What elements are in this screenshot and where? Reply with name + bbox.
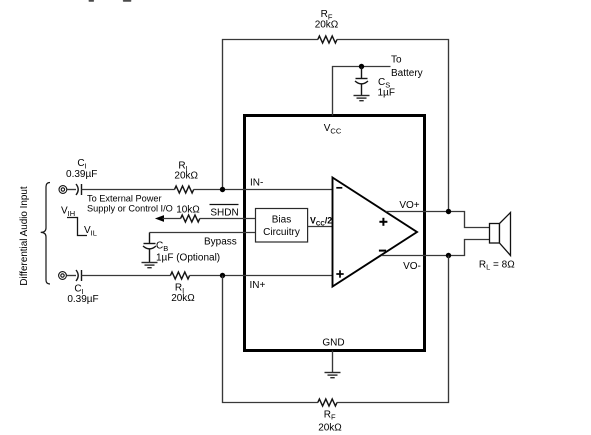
wire: bypass pin — [150, 232, 256, 234]
wire: RI to IN- pin and into amp — [194, 189, 333, 191]
wire: top feedback loop — [223, 40, 318, 190]
junction: VO+ node — [446, 209, 451, 214]
svg-text:RL = 8Ω: RL = 8Ω — [479, 260, 515, 272]
capacitor CI (bottom) — [76, 270, 82, 281]
svg-text:10kΩ: 10kΩ — [176, 204, 200, 215]
svg-text:Differential Audio Input: Differential Audio Input — [19, 186, 30, 285]
inverting input mark — [336, 187, 342, 189]
brace: differential input group — [41, 183, 50, 285]
op-amp A1 (power amplifier) — [333, 178, 418, 287]
svg-text:Battery: Battery — [391, 68, 423, 79]
wire: bottom feedback loop left — [223, 276, 318, 403]
svg-text:Bias: Bias — [272, 214, 291, 225]
svg-text:To: To — [391, 55, 402, 66]
wire: VO+ output — [386, 212, 490, 228]
resistor RF (top) — [318, 36, 337, 43]
capacitor CB — [143, 233, 156, 263]
svg-text:Supply or Control I/O: Supply or Control I/O — [87, 204, 173, 214]
wire: 10k to bias box (SHDN pin) — [200, 218, 256, 220]
wire: VO- output — [382, 240, 490, 256]
wire: bottom feedback loop right — [337, 256, 449, 403]
svg-text:0.39µF: 0.39µF — [66, 169, 97, 180]
cropped text remnant (top edge, left) — [89, 0, 95, 2]
ground (CB) — [142, 263, 158, 268]
svg-text:20kΩ: 20kΩ — [318, 423, 342, 434]
junction: IN+ node — [220, 273, 225, 278]
bias circuitry block U1 — [256, 209, 308, 243]
junction: VO- node — [446, 253, 451, 258]
cropped text remnant (top edge, right) — [123, 0, 132, 2]
svg-text:To External Power: To External Power — [87, 194, 162, 204]
logic step waveform — [67, 218, 87, 236]
ground (CS) — [354, 96, 370, 101]
svg-text:VO-: VO- — [403, 261, 421, 272]
junction: battery node — [359, 64, 364, 69]
capacitor CS — [355, 67, 368, 96]
wire: terminal to CI (bottom) — [66, 275, 76, 277]
resistor RI (bottom) — [170, 272, 189, 279]
wire: RI to IN+ pin and into amp — [190, 275, 333, 277]
svg-text:Bypass: Bypass — [204, 237, 237, 248]
output polarity - (VO-) — [379, 250, 386, 252]
pin label SHDN (overbar) — [210, 204, 239, 206]
speaker RL — [490, 224, 500, 244]
wire: GND pin — [332, 351, 334, 373]
wire: arrow to 10k resistor — [163, 218, 181, 220]
wire: terminal to CI (top) — [67, 189, 76, 191]
wire: CI to RI (bottom) — [82, 275, 171, 277]
non-inverting input mark — [336, 270, 343, 277]
input terminal (IN+) — [59, 272, 67, 280]
svg-text:SHDN: SHDN — [210, 208, 238, 219]
ground (GND pin) — [325, 373, 341, 378]
resistor 10k (shutdown) — [181, 215, 200, 222]
svg-text:1µF (Optional): 1µF (Optional) — [156, 253, 220, 264]
svg-text:VO+: VO+ — [399, 200, 419, 211]
wire: CI to RI (top) — [82, 189, 175, 191]
svg-text:0.39µF: 0.39µF — [67, 294, 98, 305]
resistor RI (top) — [175, 186, 194, 193]
svg-text:IN-: IN- — [250, 178, 263, 189]
svg-text:Circuitry: Circuitry — [263, 227, 300, 238]
output polarity + (VO+) — [379, 218, 387, 226]
capacitor CI (top) — [76, 184, 82, 195]
wire: bias output VCC/2 — [308, 226, 333, 228]
svg-text:20kΩ: 20kΩ — [174, 171, 198, 182]
svg-text:20kΩ: 20kΩ — [315, 20, 339, 31]
junction: IN- node — [220, 187, 225, 192]
wire: VCC supply from battery — [333, 67, 391, 116]
resistor RF (bottom) — [318, 399, 337, 406]
arrowhead on SHDN wire — [155, 215, 164, 222]
svg-text:1µF: 1µF — [378, 88, 395, 99]
svg-text:IN+: IN+ — [250, 280, 266, 291]
input terminal (IN-) — [59, 186, 67, 194]
wire: top feedback loop right — [337, 40, 449, 212]
svg-text:20kΩ: 20kΩ — [171, 293, 195, 304]
IC package box — [245, 116, 425, 351]
svg-text:GND: GND — [322, 337, 344, 348]
